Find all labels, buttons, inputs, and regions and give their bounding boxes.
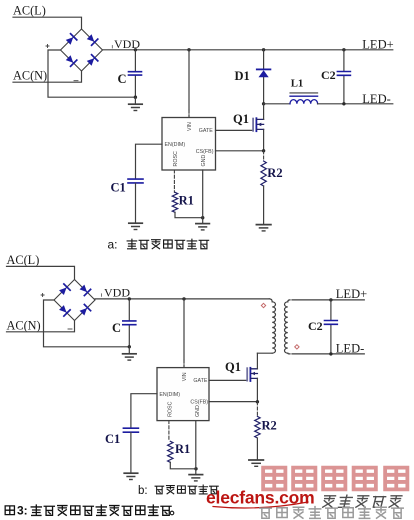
transformer primary polarity dot (circuit b) xyxy=(261,303,265,307)
bridge diode top-right (circuit b) xyxy=(79,284,91,296)
svg-text:C: C xyxy=(118,72,127,86)
junction bottom rail / ground (circuit a) xyxy=(134,96,137,99)
junction LED- rail / C2 (circuit a) xyxy=(342,102,345,105)
wire VIN (circuit b) xyxy=(183,299,185,360)
svg-text:LED-: LED- xyxy=(336,342,364,356)
transistor Q1 MOSFET (circuit b) xyxy=(247,368,257,381)
wire Q1 drain (circuit a) xyxy=(263,104,265,120)
capacitor C2 (circuit b) xyxy=(325,300,338,354)
svg-text:VIN: VIN xyxy=(182,372,188,381)
resistor R1 (circuit a) xyxy=(172,192,202,217)
svg-text:EN(DIM): EN(DIM) xyxy=(159,392,180,398)
bridge diode bottom-left (circuit b) xyxy=(58,304,70,316)
capacitor C1 (circuit b) xyxy=(123,428,138,472)
bridge diode top-left (circuit a) xyxy=(65,34,77,46)
wire Q1 source to CS junction (circuit b) xyxy=(256,378,258,402)
inductor L1 (circuit a) xyxy=(290,93,318,104)
resistor R2 (circuit b) xyxy=(255,402,260,460)
wire GND pin down (circuit a) xyxy=(202,170,204,223)
transformer secondary polarity dot (circuit b) xyxy=(295,345,299,349)
ground below C1 (circuit b) xyxy=(124,473,138,479)
svg-text:VDD: VDD xyxy=(104,286,130,300)
svg-text:R2: R2 xyxy=(267,166,282,180)
caption a: 非隔离电路结构 xyxy=(108,238,209,252)
wire EN(DIM) to C1 (circuit b) xyxy=(131,394,157,428)
svg-text:AC(N): AC(N) xyxy=(13,69,47,83)
svg-text:EN(DIM): EN(DIM) xyxy=(165,142,186,148)
svg-text:elecfans.com: elecfans.com xyxy=(206,488,315,508)
capacitor C1 (circuit a) xyxy=(128,179,143,223)
svg-text:CS(FB): CS(FB) xyxy=(196,149,214,155)
logo elecfans.com (red) xyxy=(206,488,315,509)
svg-text:GND: GND xyxy=(195,405,201,417)
wire LED- rail left segment (circuit a) xyxy=(264,103,290,105)
junction R1/GND wire (circuit a) xyxy=(201,216,204,219)
svg-text:AC(L): AC(L) xyxy=(13,4,46,18)
junction source/CS/R2 (circuit b) xyxy=(256,400,259,403)
ground below GND pin (circuit a) xyxy=(196,224,210,230)
op-amp U1 controller IC box (circuit a) xyxy=(162,118,216,171)
svg-text:D1: D1 xyxy=(235,69,250,83)
junction VDD/VIN (circuit b) xyxy=(182,297,185,300)
svg-text:AC(L): AC(L) xyxy=(7,253,40,267)
ground below C (circuit a) xyxy=(129,97,143,110)
bridge rectifier diamond (circuit b) xyxy=(54,280,95,321)
junction D1 anode / LED- rail (circuit a) xyxy=(262,102,265,105)
junction LED+ rail / C2 (circuit a) xyxy=(342,48,345,51)
wire GATE to Q1 gate (circuit b) xyxy=(209,379,247,381)
wire EN(DIM) to C1 (circuit a) xyxy=(136,144,163,178)
capacitor C (circuit b) xyxy=(123,299,136,347)
junction LED+ / C2 (circuit b) xyxy=(329,298,332,301)
wire AC(L) to bridge top (circuit a) xyxy=(13,17,82,29)
svg-text:b:: b: xyxy=(138,485,148,497)
ground below C (circuit b) xyxy=(123,347,137,360)
svg-text:CS(FB): CS(FB) xyxy=(190,400,208,406)
bridge minus mark (circuit b) xyxy=(68,328,72,330)
figure caption 图3：市电输入驱动电路结构图。 xyxy=(5,504,174,518)
caption b: 隔离电路结构 xyxy=(138,485,218,497)
svg-text:R1: R1 xyxy=(175,442,190,456)
wire AC(N) to bridge bottom (circuit b) xyxy=(7,321,75,332)
wire AC(N) to bridge bottom (circuit a) xyxy=(13,71,82,82)
svg-text:a:: a: xyxy=(108,238,118,252)
svg-text:GND: GND xyxy=(201,155,207,167)
transformer T1 primary winding (circuit b) xyxy=(257,299,275,353)
watermark 射频和天线设计专家 (gray) xyxy=(260,507,403,519)
svg-text:Q1: Q1 xyxy=(225,360,241,374)
bridge diode top-right (circuit a) xyxy=(86,34,98,46)
svg-text:C2: C2 xyxy=(308,319,323,333)
junction VDD/D1 (circuit a) xyxy=(262,48,265,51)
diode D1 (circuit a) xyxy=(257,50,271,104)
svg-text:LED-: LED- xyxy=(362,92,390,106)
svg-text:LED+: LED+ xyxy=(362,38,393,52)
svg-text:GATE: GATE xyxy=(193,378,207,384)
bridge diode top-left (circuit b) xyxy=(58,284,70,296)
junction source/CS/R2 (circuit a) xyxy=(262,149,265,152)
wire VDD rail (circuit b) xyxy=(95,298,269,300)
bridge plus mark (circuit a) xyxy=(46,45,49,48)
svg-text:ROSC: ROSC xyxy=(168,401,174,416)
bridge plus mark (circuit b) xyxy=(41,294,44,297)
op-amp U1 controller IC box (circuit b) xyxy=(157,368,209,421)
svg-text:C1: C1 xyxy=(111,181,126,195)
resistor R2 (circuit a) xyxy=(261,151,266,224)
bridge diode bottom-right (circuit a) xyxy=(86,55,98,67)
wire ROSC to R1 (circuit a) xyxy=(173,170,175,192)
wire AC(L) to bridge top (circuit b) xyxy=(7,266,75,279)
wire Q1 source to CS junction (circuit a) xyxy=(263,129,265,150)
capacitor C (circuit a) xyxy=(129,50,142,97)
wire primary bottom to Q1 drain (circuit b) xyxy=(256,353,258,369)
ground below GND pin (circuit b) xyxy=(189,475,203,481)
wire GATE to Q1 gate (circuit a) xyxy=(216,129,253,131)
wire LED+ rail (circuit b) xyxy=(292,299,364,301)
junction R1/GND wire (circuit b) xyxy=(194,467,197,470)
bridge rectifier diamond (circuit a) xyxy=(61,29,103,71)
wire CS(FB) to source (circuit a) xyxy=(216,150,264,152)
svg-text:3:: 3: xyxy=(17,504,28,518)
ground below R2 (circuit a) xyxy=(256,225,271,231)
wire VIN (circuit a) xyxy=(188,50,190,110)
svg-text:L1: L1 xyxy=(291,77,304,89)
wire LED- rail right segment (circuit a) xyxy=(318,103,393,105)
svg-text:Q1: Q1 xyxy=(233,112,249,126)
svg-text:R1: R1 xyxy=(179,194,194,208)
bridge minus mark (circuit a) xyxy=(74,80,78,82)
ground below R2 (circuit b) xyxy=(249,460,264,466)
wire VDD rail (circuit a) xyxy=(103,49,393,51)
svg-text:GATE: GATE xyxy=(199,128,213,134)
capacitor C2 (circuit a) xyxy=(337,50,350,104)
junction VDD/C (circuit a) xyxy=(134,48,137,51)
bridge diode bottom-right (circuit b) xyxy=(79,305,91,317)
junction VDD/C (circuit b) xyxy=(128,297,131,300)
svg-text:C2: C2 xyxy=(321,68,336,82)
watermark text 易迪拓培训 (pink) xyxy=(263,468,407,490)
watermark 电子发烧友 (gray) xyxy=(322,495,402,507)
junction LED- / C2 (circuit b) xyxy=(329,352,332,355)
wire bridge left vertex to bottom rail (circuit b) xyxy=(44,300,130,347)
junction bottom rail / ground (circuit b) xyxy=(128,345,131,348)
transformer T1 secondary winding (circuit b) xyxy=(284,300,290,354)
wire CS(FB) to source (circuit b) xyxy=(209,401,257,403)
svg-text:C: C xyxy=(112,321,121,335)
junction VDD/VIN (circuit a) xyxy=(187,48,190,51)
svg-text:LED+: LED+ xyxy=(336,287,367,301)
resistor R1 (circuit b) xyxy=(168,441,196,469)
wire ROSC to R1 (circuit b) xyxy=(168,421,170,442)
transistor Q1 MOSFET (circuit a) xyxy=(253,118,264,131)
svg-text:C1: C1 xyxy=(105,432,120,446)
wire GND pin down (circuit b) xyxy=(195,421,197,475)
svg-text:ROSC: ROSC xyxy=(173,151,179,166)
wire LED- rail (circuit b) xyxy=(292,353,364,355)
svg-text:VIN: VIN xyxy=(187,122,193,131)
svg-text:R2: R2 xyxy=(262,419,277,433)
wire bridge left vertex to bottom rail (circuit a) xyxy=(48,50,135,97)
svg-text:AC(N): AC(N) xyxy=(7,319,41,333)
bridge diode bottom-left (circuit a) xyxy=(65,55,77,67)
ground below C1 (circuit a) xyxy=(129,223,143,229)
